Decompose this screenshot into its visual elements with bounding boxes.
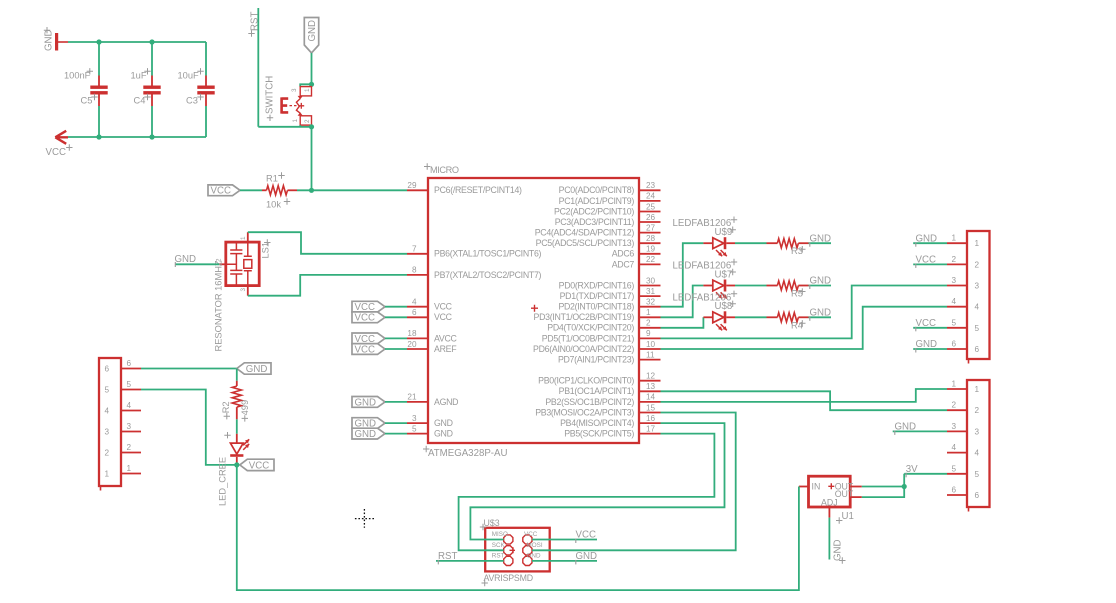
svg-text:AREF: AREF (434, 344, 457, 354)
svg-text:4: 4 (951, 297, 956, 306)
svg-text:12: 12 (646, 372, 656, 381)
svg-text:20: 20 (407, 340, 417, 349)
svg-text:3: 3 (105, 428, 110, 437)
wire R4 to GND label (809, 316, 832, 318)
resonator pin 2 stub (219, 263, 226, 265)
connector JP2 pin 3 stub (947, 430, 967, 432)
wire R2 to LED_CREE (236, 419, 238, 434)
svg-text:GND: GND (246, 364, 268, 375)
resonator pin 3 stub (247, 286, 249, 296)
wire JP3 pin5 to VCC node (141, 390, 237, 465)
regulator ADJ stub (828, 507, 830, 518)
LED U$9 LEDFAB1206 (713, 238, 724, 249)
connector JP1 pin 5 stub (947, 327, 967, 329)
pin 6 VCC stub (407, 316, 428, 318)
svg-text:3: 3 (412, 414, 417, 423)
node VCC label at AVRISP (532, 539, 597, 541)
svg-text:R4: R4 (791, 320, 803, 330)
svg-text:3: 3 (951, 276, 956, 285)
wire GND at JP1 pin 1 (913, 242, 947, 244)
pin 12 PB0(ICP1/CLKO/PCINT0) stub (639, 380, 661, 382)
svg-text:29: 29 (407, 181, 417, 190)
svg-text:5: 5 (105, 386, 110, 395)
svg-text:23: 23 (646, 181, 656, 190)
wire PB2 to connector JP2 pin1 (661, 389, 948, 402)
svg-text:3: 3 (975, 427, 980, 436)
svg-text:PC1(ADC1/PCINT9): PC1(ADC1/PCINT9) (559, 196, 635, 206)
svg-text:PD5(T1/OC0B/PCINT21): PD5(T1/OC0B/PCINT21) (542, 333, 635, 343)
svg-text:31: 31 (646, 287, 656, 296)
supply tag GND at R2 (237, 363, 271, 374)
capacitor C4 1uF (151, 42, 153, 76)
svg-text:2: 2 (975, 260, 980, 269)
pin 18 AVCC stub (407, 337, 428, 339)
supply tag GND above switch (304, 18, 318, 54)
svg-text:3: 3 (240, 288, 247, 292)
wire VCC bottom rail (68, 136, 206, 138)
wire resonator pin3 to XTAL2 (248, 275, 407, 296)
wire PB4/MISO to AVRISP (470, 423, 724, 539)
wire PD5 to connector JP1 pin3 (661, 286, 948, 339)
wire GND at JP1 pin 6 (913, 348, 947, 350)
svg-text:VCC: VCC (916, 255, 936, 266)
power VCC arrow symbol (55, 131, 68, 144)
svg-text:VCC: VCC (524, 531, 538, 538)
svg-text:GND: GND (576, 551, 598, 562)
wire IC to LED U$7 (661, 286, 704, 318)
AVRISP pad MISO (504, 535, 513, 544)
pin 5 GND stub (407, 433, 428, 435)
svg-text:VCC: VCC (355, 344, 375, 355)
junction RESET/R1 (309, 188, 314, 193)
svg-text:GND: GND (434, 418, 453, 428)
connector JP3 pin 4 stub (121, 410, 141, 412)
IC origin cross (531, 305, 538, 312)
svg-text:GND: GND (434, 429, 453, 439)
svg-text:VCC: VCC (434, 302, 453, 312)
capacitor C5 plates (90, 86, 107, 89)
svg-text:3V: 3V (906, 464, 918, 475)
svg-text:11: 11 (646, 350, 655, 359)
svg-text:26: 26 (646, 213, 656, 222)
svg-text:PD2(INT0/PCINT18): PD2(INT0/PCINT18) (558, 302, 634, 312)
junction VCC rail / C5 (96, 134, 101, 139)
pin 20 AREF stub (407, 348, 428, 350)
svg-text:1: 1 (646, 308, 651, 317)
svg-text:1: 1 (975, 385, 980, 394)
svg-text:PC3(ADC3/PCINT11): PC3(ADC3/PCINT11) (555, 217, 635, 227)
pin 14 PB2(SS/OC1B/PCINT2) stub (639, 401, 661, 403)
svg-text:1: 1 (240, 236, 247, 240)
connector JP2 pin 5 stub (947, 473, 967, 475)
svg-text:25: 25 (646, 202, 656, 211)
svg-text:PB3(MOSI/OC2A/PCINT3): PB3(MOSI/OC2A/PCINT3) (535, 407, 634, 417)
svg-text:10k: 10k (266, 200, 281, 210)
svg-text:C3: C3 (186, 96, 198, 106)
svg-text:U1: U1 (842, 511, 854, 522)
svg-text:6: 6 (951, 340, 956, 349)
svg-text:AVCC: AVCC (434, 333, 458, 343)
svg-text:2: 2 (951, 401, 956, 410)
svg-text:4: 4 (951, 443, 956, 452)
svg-text:PB1(OC1A/PCINT1): PB1(OC1A/PCINT1) (559, 386, 635, 396)
svg-text:GND: GND (916, 339, 938, 350)
wire GND tag to switch (311, 53, 313, 84)
svg-text:ADJ: ADJ (821, 498, 838, 508)
svg-text:RESONATOR 16MHZ: RESONATOR 16MHZ (214, 260, 224, 351)
supply tag VCC at LED_CREE (240, 459, 274, 470)
wire LED U$8 to R4 (735, 316, 767, 318)
svg-text:PB6(XTAL1/TOSC1/PCINT6): PB6(XTAL1/TOSC1/PCINT6) (434, 249, 542, 259)
svg-text:5: 5 (951, 318, 956, 327)
pin 25 PC2(ADC2/PCINT10) stub (639, 211, 661, 213)
supply tag VCC at R1 (208, 185, 240, 196)
svg-text:15: 15 (646, 403, 656, 412)
connector JP2 6-pin header (967, 380, 990, 507)
svg-text:8: 8 (412, 266, 417, 275)
resistor R2 zigzag (232, 386, 241, 407)
svg-text:5: 5 (975, 470, 980, 479)
svg-text:R2: R2 (221, 401, 231, 413)
regulator OUT1 stub (850, 486, 862, 488)
ground GND supply symbol top-left (55, 33, 58, 51)
wire VCC tag to R1 (240, 189, 262, 191)
svg-text:16: 16 (646, 414, 656, 423)
connector JP1 pin 2 stub (947, 263, 967, 265)
svg-text:AVRISPSMD: AVRISPSMD (484, 573, 533, 583)
node GND label at JP2 pin3 (893, 430, 947, 432)
supply tag VCC pin row 11 (352, 301, 385, 312)
svg-text:21: 21 (407, 393, 417, 402)
pin 23 PC0(ADC0/PCINT8) stub (639, 189, 661, 191)
connector JP3 6-pin header left (99, 358, 121, 486)
svg-text:LS1: LS1 (261, 242, 271, 259)
pin 9 PD5(T1/OC0B/PCINT21) stub (639, 337, 661, 339)
svg-text:18: 18 (407, 329, 417, 338)
svg-text:14: 14 (646, 393, 656, 402)
crosshair marker (355, 509, 374, 528)
resistor R1 (267, 186, 288, 195)
svg-text:10uF: 10uF (178, 71, 200, 81)
wire PB1 to connector JP2 pin2 (661, 391, 948, 410)
svg-text:PB4(MISO/PCINT4): PB4(MISO/PCINT4) (560, 418, 634, 428)
svg-text:PC2(ADC2/PCINT10): PC2(ADC2/PCINT10) (554, 206, 634, 216)
svg-text:6: 6 (412, 308, 417, 317)
svg-text:U$7: U$7 (715, 269, 733, 280)
svg-text:1: 1 (975, 239, 980, 248)
svg-text:VCC: VCC (355, 313, 375, 324)
svg-text:9: 9 (646, 329, 651, 338)
svg-text:PD0(RXD/PCINT16): PD0(RXD/PCINT16) (559, 280, 635, 290)
pin 21 AGND stub (407, 401, 428, 403)
junction GND rail / C4 (149, 39, 154, 44)
pin 10 PD6(AIN0/OC0A/PCINT22) stub (639, 348, 661, 350)
svg-text:100nF: 100nF (64, 71, 91, 81)
svg-text:2: 2 (951, 255, 956, 264)
connector JP3 pin 6 stub (121, 368, 141, 370)
wire VCC tag to IC (385, 306, 407, 308)
svg-text:IN: IN (812, 482, 821, 492)
connector JP3 pin 5 stub (121, 389, 141, 391)
svg-text:2: 2 (646, 319, 651, 328)
wire VCC at JP1 pin 2 (913, 263, 947, 265)
svg-text:4: 4 (105, 407, 110, 416)
pin 7 PB6(XTAL1/TOSC1/PCINT6) stub (407, 253, 428, 255)
svg-text:MISO: MISO (492, 531, 508, 538)
svg-text:19: 19 (646, 245, 656, 254)
svg-text:VCC: VCC (576, 530, 596, 541)
pin 31 PD1(TXD/PCINT17) stub (639, 295, 661, 297)
switch S1 tactile SWITCH (300, 84, 311, 86)
pin 1 PD3(INT1/OC2B/PCINT19) stub (639, 316, 661, 318)
supply tag GND pin row 20 (352, 397, 385, 408)
wire PB3/MOSI to AVRISP (532, 413, 736, 551)
pin 22 ADC7 stub (639, 263, 661, 265)
svg-text:30: 30 (646, 276, 656, 285)
wire R3 to GND label (809, 242, 832, 244)
pin 28 PC5(ADC5/SCL/PCINT13) stub (639, 242, 661, 244)
svg-text:PB0(ICP1/CLKO/PCINT0): PB0(ICP1/CLKO/PCINT0) (538, 376, 634, 386)
wire VCC tag to IC (385, 348, 407, 350)
svg-text:3: 3 (975, 282, 980, 291)
svg-text:3: 3 (291, 88, 298, 92)
pin 24 PC1(ADC1/PCINT9) stub (639, 200, 661, 202)
svg-text:5: 5 (412, 424, 417, 433)
svg-text:2: 2 (127, 443, 132, 452)
connector JP2 pin 2 stub (947, 409, 967, 411)
svg-text:2: 2 (105, 449, 110, 458)
pin 29 PC6(/RESET/PCINT14) stub (407, 189, 428, 191)
svg-text:PD6(AIN0/OC0A/PCINT22): PD6(AIN0/OC0A/PCINT22) (533, 344, 634, 354)
svg-text:PB5(SCK/PCINT5): PB5(SCK/PCINT5) (564, 429, 634, 439)
connector JP1 6-pin header (967, 231, 990, 359)
svg-text:32: 32 (646, 298, 656, 307)
switch lever (296, 99, 300, 114)
svg-text:PD1(TXD/PCINT17): PD1(TXD/PCINT17) (560, 291, 635, 301)
supply tag GND pin row 22 (352, 418, 385, 429)
connector JP1 pin 3 stub (947, 285, 967, 287)
svg-text:1: 1 (951, 380, 956, 389)
wire VCC tag to IC (385, 337, 407, 339)
svg-text:4: 4 (975, 449, 980, 458)
svg-text:U$9: U$9 (715, 227, 733, 238)
capacitor C5 100nF (98, 42, 100, 76)
svg-text:R5: R5 (791, 289, 803, 299)
wire RST vertical (257, 8, 259, 127)
svg-text:C5: C5 (81, 96, 93, 106)
svg-text:GND: GND (810, 276, 832, 287)
svg-text:PC0(ADC0/PCINT8): PC0(ADC0/PCINT8) (559, 185, 635, 195)
connector JP1 pin 4 stub (947, 306, 967, 308)
wire R5 to GND label (809, 285, 832, 287)
svg-text:22: 22 (646, 255, 656, 264)
svg-text:1: 1 (127, 464, 132, 473)
wire VCC at JP1 pin 5 (913, 327, 947, 329)
regulator U1 box (809, 476, 851, 507)
svg-text:MOSI: MOSI (527, 542, 543, 549)
svg-text:SCK: SCK (492, 542, 506, 549)
wire LED U$7 to R5 (735, 285, 767, 287)
svg-text:GND: GND (355, 397, 377, 408)
svg-text:1: 1 (951, 234, 956, 243)
svg-text:5: 5 (127, 380, 132, 389)
pin 27 PC4(ADC4/SDA/PCINT12) stub (639, 232, 661, 234)
connector JP2 pin 1 stub (947, 388, 967, 390)
svg-text:GND: GND (810, 233, 832, 244)
svg-text:GND: GND (44, 29, 55, 51)
svg-text:1uF: 1uF (131, 71, 147, 81)
svg-text:GND: GND (916, 233, 938, 244)
AVRISP pad MOSI (523, 546, 532, 555)
resonator internal caps (226, 242, 252, 286)
svg-text:PC5(ADC5/SCL/PCINT13): PC5(ADC5/SCL/PCINT13) (536, 238, 635, 248)
wire ADJ to GND label (828, 518, 830, 560)
pin 11 PD7(AIN1/PCINT23) stub (639, 359, 661, 361)
svg-text:PD7(AIN1/PCINT23): PD7(AIN1/PCINT23) (558, 355, 634, 365)
svg-text:ADC6: ADC6 (612, 249, 635, 259)
svg-text:7: 7 (412, 245, 417, 254)
svg-text:PB2(SS/OC1B/PCINT2): PB2(SS/OC1B/PCINT2) (545, 397, 634, 407)
svg-text:R3: R3 (791, 246, 803, 256)
node RST label at AVRISP (436, 560, 504, 562)
node GND label at resonator pin 2 (175, 263, 219, 265)
wire LED U$9 to R3 (735, 242, 767, 244)
svg-text:4: 4 (127, 401, 132, 410)
capacitor C3 10uF (205, 42, 207, 76)
svg-text:RST: RST (492, 553, 505, 560)
wire GND tag to IC (385, 422, 407, 424)
pin 30 PD0(RXD/PCINT16) stub (639, 285, 661, 287)
wire R1 to IC pin 29 (297, 189, 407, 191)
svg-text:27: 27 (646, 223, 656, 232)
svg-text:R1: R1 (266, 174, 278, 184)
svg-text:1: 1 (304, 88, 311, 92)
wire OUT2 up to JP2 pin5 (862, 474, 904, 497)
connector JP3 pin 2 stub (121, 452, 141, 454)
wire OUT1 to junction (862, 486, 904, 488)
svg-text:GND: GND (527, 553, 541, 560)
svg-text:2: 2 (975, 406, 980, 415)
svg-text:SWITCH: SWITCH (265, 76, 276, 114)
svg-text:4: 4 (412, 298, 417, 307)
svg-text:LED_CREE: LED_CREE (218, 457, 228, 506)
svg-text:C4: C4 (134, 96, 146, 106)
capacitor C4 plates (143, 86, 160, 89)
svg-text:6: 6 (951, 486, 956, 495)
svg-text:U$8: U$8 (715, 301, 733, 312)
AVRISP pad GND (523, 556, 532, 565)
pin 13 PB1(OC1A/PCINT1) stub (639, 390, 661, 392)
pin 19 ADC6 stub (639, 253, 661, 255)
resistor R5 (777, 281, 798, 290)
resonator crystal (244, 242, 252, 286)
connector JP3 pin 1 stub (121, 473, 141, 475)
wire JP3 pin6 to GND flag (141, 368, 237, 370)
junction switch bottom (309, 124, 314, 129)
svg-text:1: 1 (105, 470, 110, 479)
wire resonator pin1 to XTAL1 (248, 232, 407, 254)
LED U$8 LEDFAB1206 (713, 312, 724, 323)
svg-text:3: 3 (127, 422, 132, 431)
svg-text:GND: GND (355, 429, 377, 440)
AVRISP pad RST (504, 556, 513, 565)
junction switch top (309, 82, 314, 87)
connector JP2 pin 6 stub (947, 494, 967, 496)
svg-text:6: 6 (127, 359, 132, 368)
wire GND tag to IC (385, 433, 407, 435)
svg-text:10: 10 (646, 340, 656, 349)
pin 17 PB5(SCK/PCINT5) stub (639, 433, 661, 435)
svg-text:13: 13 (646, 382, 656, 391)
junction GND rail / C5 (96, 39, 101, 44)
svg-text:RST: RST (250, 12, 261, 31)
svg-text:VCC: VCC (434, 312, 453, 322)
svg-text:AGND: AGND (434, 397, 458, 407)
svg-text:6: 6 (975, 345, 980, 354)
AVRISP pad SCK (504, 546, 513, 555)
svg-text:RST: RST (438, 551, 457, 562)
regulator IN stub (799, 486, 809, 488)
connector JP3 pin 3 stub (121, 431, 141, 433)
resistor R2 (236, 369, 238, 381)
connector JP1 pin 1 stub (947, 242, 967, 244)
resonator LS1 RESONATOR 16MHZ body (226, 242, 259, 286)
wire RST to switch pin (258, 126, 311, 128)
pin 15 PB3(MOSI/OC2A/PCINT3) stub (639, 412, 661, 414)
AVRISP pad VCC (523, 535, 532, 544)
svg-text:VCC: VCC (916, 318, 936, 329)
pin 26 PC3(ADC3/PCINT11) stub (639, 221, 661, 223)
op-amp / IC U1 MICRO ATMEGA328P-AU body (428, 178, 639, 443)
svg-text:6: 6 (975, 491, 980, 500)
svg-text:4: 4 (975, 303, 980, 312)
regulator OUT2 stub (850, 496, 862, 498)
svg-text:GND: GND (175, 254, 197, 265)
svg-text:ATMEGA328P-AU: ATMEGA328P-AU (428, 448, 508, 459)
svg-text:VCC: VCC (46, 147, 66, 158)
wire PB5/SCK to AVRISP (459, 434, 715, 551)
svg-text:PB7(XTAL2/TOSC2/PCINT7): PB7(XTAL2/TOSC2/PCINT7) (434, 270, 542, 280)
pin 4 VCC stub (407, 306, 428, 308)
wire IC to LED U$9 (661, 243, 704, 307)
connector JP1 pin 6 stub (947, 348, 967, 350)
svg-text:PC6(/RESET/PCINT14): PC6(/RESET/PCINT14) (434, 185, 522, 195)
supply tag VCC pin row 15 (352, 344, 385, 355)
svg-text:24: 24 (646, 192, 656, 201)
LED U$7 LEDFAB1206 (713, 280, 724, 291)
svg-text:2: 2 (304, 119, 311, 123)
pin 32 PD2(INT0/PCINT18) stub (639, 306, 661, 308)
svg-text:499: 499 (240, 400, 250, 416)
svg-text:PC4(ADC4/SDA/PCINT12): PC4(ADC4/SDA/PCINT12) (535, 228, 635, 238)
pin 16 PB4(MISO/PCINT4) stub (639, 422, 661, 424)
svg-text:1: 1 (292, 119, 299, 123)
supply tag VCC pin row 14 (352, 333, 385, 344)
svg-text:VCC: VCC (211, 186, 231, 197)
pin 3 GND stub (407, 422, 428, 424)
node GND label at AVRISP (532, 560, 597, 562)
svg-text:5: 5 (975, 324, 980, 333)
junction VCC rail / C4 (149, 134, 154, 139)
svg-text:GND: GND (810, 308, 832, 319)
svg-text:3: 3 (951, 422, 956, 431)
connector JP2 pin 4 stub (947, 452, 967, 454)
svg-text:VCC: VCC (249, 460, 269, 471)
resistor R3 (777, 239, 798, 248)
junction LED_CREE / VCC (234, 462, 239, 467)
svg-text:PD3(INT1/OC2B/PCINT19): PD3(INT1/OC2B/PCINT19) (534, 312, 635, 322)
LED U$2 LED_CREE (230, 443, 243, 454)
